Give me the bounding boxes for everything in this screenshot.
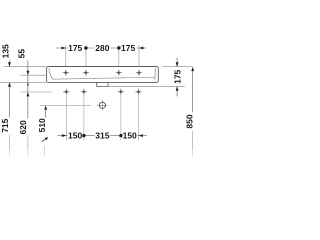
- basin inner left wall: [49, 68, 53, 79]
- arrowhead bottom-right pointing left: [139, 134, 143, 137]
- extension line tap hole 4: [138, 45, 140, 66]
- arrow blob bottom extension 2: [82, 134, 85, 137]
- reference line bottom of drain tail extending right: [108, 85, 185, 87]
- extension line tap hole 1: [65, 45, 67, 66]
- dimension 510 diagonal leader arrow: [42, 138, 47, 141]
- dimension 135 upper arrow: [9, 60, 11, 66]
- drain centerline extending left: [40, 104, 91, 106]
- tap hole cross 4: [136, 70, 142, 76]
- bottom extension line 3: [120, 95, 122, 141]
- fixing hole cross 1: [63, 89, 69, 95]
- tap hole cross 3: [116, 70, 122, 76]
- left reference line fixing holes: [21, 91, 53, 93]
- arrowhead top-left pointing right: [61, 47, 65, 50]
- svg-text:510: 510: [37, 118, 47, 132]
- drain circle symbol: [99, 102, 105, 108]
- arrow blob bottom extension 3: [119, 134, 122, 137]
- bottom dimension line 150/315/150: [58, 135, 148, 137]
- arrowhead bottom-left pointing right: [62, 134, 66, 137]
- dimension 55 upper arrow: [27, 61, 29, 76]
- arrow blob at tap extension 2: [84, 46, 87, 49]
- label 315 background: [95, 132, 110, 140]
- extension line tap hole 3: [118, 45, 120, 66]
- label 280 background: [95, 44, 111, 52]
- dimension 715 upper arrow at basin bottom: [8, 82, 11, 86]
- svg-text:620: 620: [18, 120, 28, 134]
- dimension 510 lower stub: [44, 146, 46, 156]
- bottom extension line 2: [83, 95, 85, 141]
- svg-text:175: 175: [121, 43, 135, 53]
- svg-text:175: 175: [173, 69, 183, 83]
- drain tail under basin: [97, 82, 108, 86]
- bottom extension line 1: [65, 95, 67, 141]
- svg-text:715: 715: [0, 118, 10, 132]
- bottom extension line 4: [138, 95, 140, 141]
- svg-text:280: 280: [95, 43, 109, 53]
- fixing hole cross 3: [118, 89, 124, 95]
- dimension 620 line: [27, 96, 29, 119]
- left reference line basin top: [4, 66, 46, 68]
- label 150 background: [68, 132, 83, 140]
- top dimension line 175/280/175: [56, 47, 147, 49]
- basin inner right wall: [154, 68, 156, 81]
- svg-text:175: 175: [68, 43, 82, 53]
- arrowhead top-right pointing left: [139, 47, 143, 50]
- dimension 510 arrow to drain centerline: [44, 105, 47, 109]
- fixing hole cross 2: [81, 89, 87, 95]
- washbasin outline front view: [47, 67, 159, 83]
- dimension 850 line: [191, 67, 194, 71]
- tap hole cross 1: [63, 70, 69, 76]
- arrow blob at tap extension 3: [117, 46, 120, 49]
- svg-text:850: 850: [184, 114, 194, 128]
- basin inner bottom edge: [53, 77, 154, 79]
- left reference line basin bottom: [0, 81, 46, 83]
- extension line tap hole 2: [85, 45, 87, 66]
- reference line basin top extending right: [162, 66, 192, 68]
- dimension 175 right upper arrow: [176, 58, 178, 67]
- tap hole cross 2: [83, 70, 89, 76]
- svg-text:150: 150: [68, 131, 82, 141]
- dimension 175 right lower arrow: [176, 86, 178, 96]
- label 150 background: [122, 132, 137, 140]
- label 175 background: [68, 44, 84, 52]
- label 175 background: [121, 44, 137, 52]
- left reference line inner bowl: [21, 74, 47, 76]
- svg-text:150: 150: [123, 131, 137, 141]
- svg-text:315: 315: [95, 131, 109, 141]
- dimension 55 lower arrow and 620 upper arrow shared line: [27, 75, 29, 92]
- fixing hole cross 4: [135, 89, 141, 95]
- svg-text:135: 135: [1, 44, 11, 58]
- svg-text:55: 55: [16, 49, 26, 59]
